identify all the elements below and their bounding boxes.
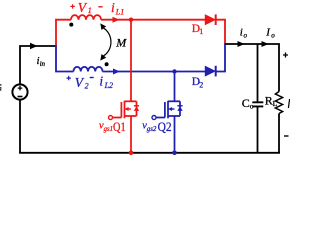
mutual coupling arrow M (104, 28, 111, 56)
polarity dot of L1 (black) (69, 23, 73, 27)
transistor Q2 (blue MOSFET with body diode) (152, 72, 183, 153)
drain wire from top rail (130, 20, 132, 102)
label - (output) (284, 135, 289, 137)
arrow i_o (238, 41, 245, 47)
arrow i_L2 (113, 69, 120, 75)
wire: left vertical lower segment (black) (19, 100, 21, 153)
top bar (125, 100, 137, 102)
right loop (body diode branch) (179, 101, 181, 116)
svg-text:L1: L1 (115, 8, 124, 17)
channel bar (167, 101, 169, 119)
svg-text:M: M (115, 36, 127, 50)
resistor RL zigzag (275, 92, 282, 114)
svg-text:2: 2 (85, 81, 89, 90)
transistor Q1 (red MOSFET with body diode) (109, 20, 140, 153)
gate bar (164, 102, 166, 118)
channel bar (124, 101, 126, 119)
svg-text:L2: L2 (104, 81, 113, 90)
gate lead (113, 117, 122, 119)
body arrow Q2 (171, 108, 175, 110)
wire: bottom rail (black) (19, 152, 280, 154)
arrow i_in on input wire (30, 43, 38, 49)
gate terminal circle (109, 116, 113, 120)
gate lead (156, 117, 165, 119)
svg-text:i: i (111, 0, 115, 15)
gate terminal circle (152, 116, 156, 120)
svg-text:gs1: gs1 (104, 126, 113, 133)
label + V2 - i_L2 (67, 74, 114, 91)
capacitor Co branch wire lower (257, 106, 259, 152)
capacitor Co branch wire upper (257, 44, 259, 102)
wire: input top wire and left vertical upper segment (black) (20, 46, 56, 84)
source wire to bottom rail (174, 116, 176, 153)
gate bar (120, 102, 122, 118)
bottom bar (125, 115, 137, 117)
wire: blue left vertical down from input node (56, 45, 74, 71)
current source Vin (circle with + and -) (12, 84, 27, 99)
wire: L2 to D2 (blue) (103, 71, 207, 73)
body arrow Q1 (128, 108, 132, 110)
label v_in (clipped at left edge) (0, 84, 2, 86)
body diode triangle Q1 (134, 106, 139, 111)
bottom bar (168, 115, 180, 117)
body diode triangle Q2 (177, 106, 182, 111)
diode D2 (blue) (205, 66, 215, 77)
label V_o (clipped at right edge) (288, 99, 289, 108)
wire: top rail from L1 to D1 (red) (101, 19, 206, 21)
svg-text:1: 1 (199, 27, 203, 36)
polarity dot of L2 (black) (105, 62, 109, 66)
node: junction L2 wire / Q2 drain (blue dot) (172, 69, 176, 73)
wire: D1 cathode to output junction (red) (217, 20, 226, 44)
svg-text:1: 1 (88, 6, 92, 15)
svg-text:2: 2 (199, 80, 203, 89)
svg-text:C: C (242, 96, 250, 110)
node: Q2 source / bottom rail (blue dot) (172, 151, 177, 156)
label + (output) (283, 53, 288, 58)
svg-text:i: i (240, 26, 243, 38)
body diode cathode bar (134, 105, 139, 107)
label + V1 - i_L1 (70, 0, 124, 17)
svg-text:L: L (273, 99, 278, 108)
svg-text:gs2: gs2 (147, 126, 157, 133)
body diode cathode bar (177, 105, 182, 107)
wire: red left vertical from input node up to top rail (56, 20, 71, 47)
svg-text:o: o (244, 31, 248, 39)
right loop (body diode branch) (136, 101, 138, 116)
node: junction top rail / Q1 drain (red dot) (129, 18, 133, 22)
arrow i_L1 on top rail (113, 17, 120, 23)
svg-text:in: in (0, 83, 2, 92)
diode D1 (red) (205, 14, 215, 25)
wire: D2 cathode to output junction (blue) (217, 43, 226, 71)
wire: resistor to bottom rail (278, 114, 280, 153)
inductor L1 (coupled winding, red) (71, 15, 101, 20)
svg-text:o: o (271, 31, 275, 39)
node: Q1 source / bottom rail (red dot) (129, 151, 134, 156)
svg-text:i: i (99, 74, 103, 89)
capacitor Co plates (252, 102, 263, 106)
drain wire from L2 wire (174, 72, 176, 102)
wire: output top wire (black) (225, 44, 279, 92)
source wire to bottom rail (130, 116, 132, 153)
arrow I_o (262, 41, 269, 47)
svg-text:Q1: Q1 (113, 119, 126, 134)
inductor L2 (coupled winding, blue) (74, 67, 103, 72)
top bar (168, 100, 180, 102)
svg-text:Q2: Q2 (158, 119, 172, 134)
svg-text:o: o (250, 102, 254, 111)
svg-text:R: R (265, 93, 273, 107)
